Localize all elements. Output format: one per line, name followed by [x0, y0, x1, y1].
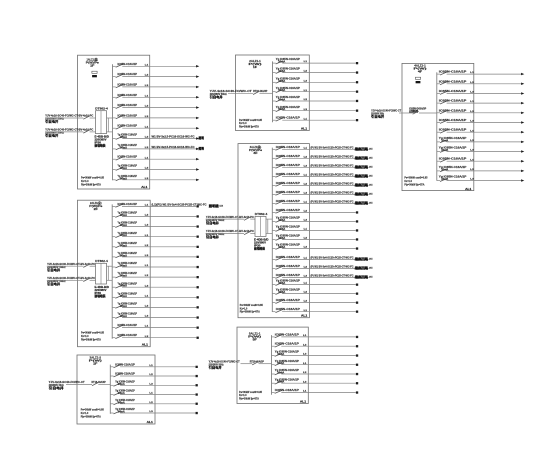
wire meter to bus 2ALZ1 — [107, 266, 113, 280]
svg-text:(P) W1 BV-3x4-SC25+PC25-CT-WC-: (P) W1 BV-3x4-SC25+PC25-CT-WC-FC — [311, 265, 354, 269]
svg-text:30mA: 30mA — [120, 244, 127, 247]
svg-text:Yg iC65N-C16A/1P: Yg iC65N-C16A/1P — [276, 216, 300, 220]
svg-text:30mA: 30mA — [120, 305, 127, 308]
breaker 1ALZ1 QF3 — [113, 82, 200, 88]
breaker 5ALZ1-1 QF1 — [272, 332, 359, 338]
svg-text:嵌墙暗装: 嵌墙暗装 — [254, 246, 265, 250]
svg-text:Pjs=30kW Ijs=57A: Pjs=30kW Ijs=57A — [81, 415, 101, 419]
svg-text:30mA: 30mA — [118, 392, 125, 395]
breaker 1ALZ1 QF6 — [113, 113, 200, 119]
svg-text:Yg iC65N-C16A/1P: Yg iC65N-C16A/1P — [118, 174, 138, 178]
svg-text:(L1)(P1) W1 BV-3x4-SC25-PC25-C: (L1)(P1) W1 BV-3x4-SC25-PC25-CT-WC-FC — [152, 202, 207, 206]
svg-text:Yg iC65N-C16A/1P: Yg iC65N-C16A/1P — [276, 225, 300, 229]
svg-text:30mA: 30mA — [277, 353, 284, 356]
svg-text:Pe=30kW cosΦ=0.85: Pe=30kW cosΦ=0.85 — [239, 390, 262, 394]
svg-text:30mA: 30mA — [278, 108, 285, 111]
breaker 2ALZ1 QF10 — [112, 291, 199, 298]
svg-text:Pe=30kW cosΦ=0.85: Pe=30kW cosΦ=0.85 — [404, 176, 427, 180]
svg-text:RT18-40A/3P: RT18-40A/3P — [253, 89, 267, 93]
breaker 4ALZ1-1 QF2 — [437, 79, 525, 85]
svg-text:照明: 照明 — [199, 135, 204, 140]
svg-text:30mA: 30mA — [118, 383, 125, 386]
breaker 3ALZ1 QF14 — [272, 264, 373, 270]
svg-text:30mA: 30mA — [120, 177, 127, 180]
breaker 4ALZ1-1 QF6 — [437, 118, 525, 124]
svg-text:引自电井: 引自电井 — [210, 95, 223, 99]
svg-text:1F: 1F — [253, 65, 258, 69]
feeder cable label 1ALZ1-WL1 — [45, 114, 93, 124]
feeder cable label 3ALZ1-WL1 — [206, 215, 254, 225]
svg-text:引自电井: 引自电井 — [371, 115, 384, 119]
svg-text:插座回路: 插座回路 — [355, 265, 369, 270]
svg-text:1XX: 1XX — [369, 277, 373, 279]
svg-text:1XX: 1XX — [369, 194, 373, 196]
breaker 3ALZ1-2 QF5 — [110, 398, 198, 405]
breaker 3ALZ1 QF19 — [272, 307, 358, 313]
svg-text:Yg iC65N-C16A/1P: Yg iC65N-C16A/1P — [439, 146, 467, 150]
svg-text:Yg iC65N-C16A/1P: Yg iC65N-C16A/1P — [118, 231, 138, 235]
svg-text:30mA: 30mA — [277, 372, 284, 375]
svg-text:iC65N-C16A/1P: iC65N-C16A/1P — [118, 62, 138, 66]
svg-text:插座回路: 插座回路 — [355, 182, 369, 187]
svg-text:30mA: 30mA — [278, 80, 285, 83]
svg-text:Yg iC65N-C16A/1P: Yg iC65N-C16A/1P — [118, 211, 138, 215]
svg-text:30mA: 30mA — [278, 70, 285, 73]
svg-text:1F: 1F — [93, 362, 98, 366]
svg-text:30mA: 30mA — [277, 362, 284, 365]
svg-text:Pjs=30kW Ijs=57A: Pjs=30kW Ijs=57A — [81, 337, 101, 341]
switch QS 2ALZ1-1 — [83, 264, 89, 267]
svg-text:1XX: 1XX — [369, 158, 373, 160]
breaker 4ALZ1-1 QF10 — [437, 157, 525, 163]
svg-text:iC65N-C16A/1P: iC65N-C16A/1P — [118, 72, 138, 76]
svg-text:30mA: 30mA — [120, 254, 127, 257]
svg-text:引自电井: 引自电井 — [47, 268, 60, 272]
svg-text:1F: 1F — [90, 64, 95, 68]
svg-text:iC65N-C16A/1P: iC65N-C16A/1P — [439, 89, 467, 93]
breaker 3ALZ1 QF5 — [272, 181, 373, 187]
breaker 3ALZ1 QF6 — [272, 190, 373, 196]
svg-text:引自电井: 引自电井 — [45, 134, 58, 138]
feeder cable label 2ALZ1-1-WL — [210, 89, 253, 99]
svg-text:30mA: 30mA — [120, 146, 127, 149]
panel 1ALZ1 enclosure box — [78, 55, 150, 189]
kWh meter PJ 1ALZ1 — [95, 108, 108, 134]
breaker 2ALZ1 QF9 — [112, 281, 199, 288]
breaker 2ALZ1 QF11 — [112, 302, 199, 309]
panel tag 3ALZ1-2 — [147, 420, 154, 424]
svg-text:AL1: AL1 — [142, 343, 149, 347]
svg-text:4F: 4F — [418, 70, 423, 74]
breaker 1ALZ1 QF12 — [113, 174, 200, 181]
svg-text:5F: 5F — [253, 337, 258, 341]
breaker 4ALZ1-1 QF3 — [437, 89, 525, 95]
svg-text:Pjs=30kW Ijs=57A: Pjs=30kW Ijs=57A — [404, 182, 424, 186]
svg-text:Yg iC65N-C16A/1P: Yg iC65N-C16A/1P — [118, 302, 138, 306]
breaker 1ALZ1 QF10 — [113, 155, 200, 161]
svg-text:30mA: 30mA — [278, 228, 285, 231]
breaker 3ALZ1-2 QF3 — [110, 379, 198, 386]
svg-text:30mA: 30mA — [441, 149, 448, 152]
breaker 2ALZ1-1 QF3 — [273, 76, 359, 83]
breaker 3ALZ1-2 QF6 — [110, 407, 198, 414]
svg-text:Yg iC65N-C16A/1P: Yg iC65N-C16A/1P — [118, 241, 138, 245]
breaker 1ALZ1 QF9 — [113, 143, 204, 151]
svg-text:插座回路: 插座回路 — [355, 256, 369, 261]
panel name plate 4ALZ1-1 — [414, 64, 427, 84]
switch QS 1ALZ1-2 — [83, 130, 89, 133]
svg-text:1XX: 1XX — [369, 259, 373, 261]
breaker 2ALZ1-1 QF5 — [273, 95, 359, 102]
panel name plate 3ALZ1-2 — [89, 356, 102, 366]
breaker 5ALZ1-1 QF2 — [272, 342, 359, 348]
svg-text:引自电井: 引自电井 — [209, 365, 222, 369]
svg-text:iC65N-C16A/1P: iC65N-C16A/1P — [276, 172, 300, 176]
wire incoming 3ALZ1-2 — [66, 384, 110, 386]
svg-text:(P) W1 BV-3x4-SC25+PC25-CT-WC-: (P) W1 BV-3x4-SC25+PC25-CT-WC-FC — [311, 145, 354, 149]
panel 3ALZ1 enclosure box — [238, 144, 309, 318]
panel 4ALZ1-1 enclosure box — [402, 63, 474, 190]
breaker 2ALZ1 QF4 — [112, 231, 199, 238]
svg-text:30mA: 30mA — [120, 214, 127, 217]
svg-text:照明插: 照明插 — [209, 203, 219, 208]
breaker 2ALZ1-1 QF1 — [273, 57, 359, 64]
breaker 2ALZ1-1 QF4 — [273, 86, 359, 93]
breaker 3ALZ1 QF3 — [272, 163, 373, 169]
switch QS 1ALZ1-1 — [83, 116, 89, 119]
svg-text:Yg iC65N-C16A/1P: Yg iC65N-C16A/1P — [439, 136, 467, 140]
breaker 1ALZ1 QF4 — [113, 93, 200, 99]
svg-text:30mA: 30mA — [278, 219, 285, 222]
svg-text:iC65N-C16A/1P: iC65N-C16A/1P — [439, 79, 467, 83]
svg-text:Pe=30kW cosΦ=0.85: Pe=30kW cosΦ=0.85 — [81, 408, 104, 412]
svg-text:iC65N-C16A/1P: iC65N-C16A/1P — [439, 108, 467, 112]
svg-text:W1 BV-3x2.5-PC16-SC16-WC-FC: W1 BV-3x2.5-PC16-SC16-WC-FC — [152, 135, 195, 139]
svg-text:Pe=30kW cosΦ=0.85: Pe=30kW cosΦ=0.85 — [239, 118, 262, 122]
svg-text:AL1: AL1 — [147, 420, 154, 424]
wire incoming 2ALZ1 line1 — [47, 265, 96, 267]
breaker 5ALZ1-1 QF3 — [272, 350, 359, 357]
svg-text:iC65N-C16A/1P: iC65N-C16A/1P — [118, 155, 138, 159]
svg-text:iC65N-C16A/1P: iC65N-C16A/1P — [276, 255, 300, 259]
breaker 4ALZ1-1 QF1 — [437, 70, 525, 76]
main switch 2ALZ1-1 RT-40A/3P — [253, 89, 267, 95]
svg-text:DT862-4: DT862-4 — [255, 213, 268, 216]
wire incoming 4ALZ1-1 — [399, 112, 437, 114]
main switch 5ALZ1-1 RT-40A/3P — [250, 359, 264, 365]
svg-text:Yg iC65N-C16A/1P: Yg iC65N-C16A/1P — [276, 279, 300, 283]
svg-text:iC65N-C16A/1P: iC65N-C16A/1P — [275, 332, 299, 336]
svg-text:Kx=1.0: Kx=1.0 — [240, 306, 248, 310]
svg-text:Yg iC65N-C16A/1P: Yg iC65N-C16A/1P — [275, 350, 299, 354]
svg-text:iC65N-C16A/1P: iC65N-C16A/1P — [276, 154, 300, 158]
svg-text:Pjs=30kW Ijs=57A: Pjs=30kW Ijs=57A — [240, 310, 260, 314]
load summary text 3ALZ1 — [240, 303, 263, 314]
svg-text:iC65N-C16A/1P: iC65N-C16A/1P — [276, 190, 300, 194]
enclosure label E-4DB 2ALZ1 — [95, 285, 110, 298]
breaker 4ALZ1-1 QF11 — [437, 165, 525, 172]
svg-text:Yg iC65N-C16A/1P: Yg iC65N-C16A/1P — [118, 143, 138, 147]
svg-text:照明: 照明 — [199, 146, 204, 151]
svg-text:Yg iC65N-C16A/1P: Yg iC65N-C16A/1P — [275, 377, 299, 381]
svg-text:(P) W1 BV-3x4-SC25+PC25-CT-WC-: (P) W1 BV-3x4-SC25+PC25-CT-WC-FC — [311, 274, 354, 278]
breaker 1ALZ1 QF7 — [113, 124, 200, 130]
main switch 3ALZ1-2 RT-40A/3P — [92, 380, 106, 386]
load summary text 3ALZ1-2 — [81, 408, 104, 419]
svg-text:Yg iC65N-C16A/1P: Yg iC65N-C16A/1P — [276, 105, 300, 109]
svg-text:30mA: 30mA — [278, 291, 285, 294]
enclosure label E-4DB 3ALZ1 — [254, 237, 269, 250]
busbar 3ALZ1 — [271, 148, 273, 312]
svg-text:1XX: 1XX — [369, 268, 373, 270]
svg-text:30mA: 30mA — [278, 99, 285, 102]
wire incoming 2ALZ1 line2 — [47, 279, 96, 281]
breaker 3ALZ1 QF10 — [272, 225, 358, 232]
breaker 2ALZ1 QF8 — [112, 271, 199, 278]
svg-text:30mA: 30mA — [441, 178, 448, 181]
breaker 3ALZ1 QF16 — [272, 279, 358, 286]
wire incoming 5ALZ1-1 — [241, 363, 272, 365]
svg-text:(P) W1 BV-3x4-SC25+PC25-CT-WC-: (P) W1 BV-3x4-SC25+PC25-CT-WC-FC — [311, 163, 354, 167]
panel tag 5ALZ1-1 — [300, 400, 307, 404]
svg-text:(P) W1 BV-3x4-SC25+PC25-CT-WC-: (P) W1 BV-3x4-SC25+PC25-CT-WC-FC — [311, 172, 354, 176]
breaker 4ALZ1-1 QF5 — [437, 108, 525, 114]
kWh meter PJ 2ALZ1 — [95, 260, 108, 284]
svg-text:AL1: AL1 — [465, 187, 472, 191]
busbar 2ALZ1 — [111, 204, 113, 338]
svg-text:iC65N-C16A/1P: iC65N-C16A/1P — [276, 145, 300, 149]
wire incoming 2ALZ1-1 — [228, 92, 273, 94]
svg-text:3F: 3F — [253, 151, 258, 155]
svg-text:嵌墙暗装: 嵌墙暗装 — [95, 294, 106, 298]
svg-text:过毄器: 过毄器 — [409, 109, 419, 113]
svg-text:30mA: 30mA — [120, 136, 127, 139]
svg-text:iC65N-C16A/1P: iC65N-C16A/1P — [276, 298, 300, 302]
svg-text:Kx=1.0: Kx=1.0 — [81, 334, 89, 338]
svg-text:插座回路: 插座回路 — [355, 155, 369, 160]
breaker 3ALZ1 QF9 — [272, 216, 358, 223]
svg-text:iC65N-C16A/1P: iC65N-C16A/1P — [439, 70, 467, 74]
switch QS 2ALZ1-2 — [83, 278, 89, 281]
breaker 3ALZ1-2 QF2 — [110, 372, 198, 378]
svg-text:Kx=1.0: Kx=1.0 — [239, 121, 247, 125]
svg-text:Kx=1.0: Kx=1.0 — [239, 393, 247, 397]
wire incoming 3ALZ1 line1 — [206, 218, 255, 220]
busbar 5ALZ1-1 — [271, 335, 273, 395]
svg-text:Pjs=30kW Ijs=57A: Pjs=30kW Ijs=57A — [239, 125, 259, 129]
svg-text:Yg iC65N-C16A/1P: Yg iC65N-C16A/1P — [115, 389, 135, 393]
feeder cable label 3ALZ1-2-WL — [49, 380, 85, 390]
breaker 3ALZ1 QF2 — [272, 154, 373, 160]
svg-text:30mA: 30mA — [120, 275, 127, 278]
svg-text:Pjs=30kW Ijs=57A: Pjs=30kW Ijs=57A — [81, 182, 101, 186]
enclosure label E-4DB 1ALZ1 — [95, 135, 110, 148]
load summary text 2ALZ1-1 — [239, 118, 262, 129]
feeder cable label 5ALZ1-1-WL — [209, 359, 240, 369]
svg-text:iC65N-C16A/1P: iC65N-C16A/1P — [115, 372, 135, 376]
svg-text:iC65N-C16A/1P: iC65N-C16A/1P — [276, 199, 300, 203]
svg-text:AL1: AL1 — [300, 400, 307, 404]
svg-text:Kx=1.0: Kx=1.0 — [81, 179, 89, 183]
svg-text:1XX: 1XX — [219, 206, 223, 208]
svg-text:1XX: 1XX — [369, 176, 373, 178]
breaker 4ALZ1-1 QF9 — [437, 146, 525, 153]
svg-text:Pe=30kW cosΦ=0.85: Pe=30kW cosΦ=0.85 — [81, 331, 104, 335]
panel 3ALZ1-2 enclosure box — [77, 355, 155, 424]
svg-text:30mA: 30mA — [278, 282, 285, 285]
wire meter to bus 3ALZ1 — [266, 219, 272, 233]
load summary text 5ALZ1-1 — [239, 390, 262, 401]
svg-text:RT18-40A/3P: RT18-40A/3P — [92, 380, 106, 384]
svg-text:iC65N-C16A/1P: iC65N-C16A/1P — [276, 307, 300, 311]
svg-text:iC65N-C16A/1P: iC65N-C16A/1P — [439, 128, 467, 132]
breaker 2ALZ1-1 QF7 — [273, 116, 359, 122]
breaker 4ALZ1-1 QF4 — [437, 99, 525, 105]
svg-text:30mA: 30mA — [118, 401, 125, 404]
svg-text:AL1: AL1 — [141, 185, 148, 189]
svg-text:Yg iC65N-C16A/1P: Yg iC65N-C16A/1P — [276, 288, 300, 292]
kWh meter PJ 3ALZ1 — [255, 213, 268, 236]
svg-text:30mA: 30mA — [120, 295, 127, 298]
breaker 2ALZ1-1 QF6 — [273, 105, 359, 112]
svg-text:30mA: 30mA — [278, 89, 285, 92]
svg-text:iC65N-C16A/1P: iC65N-C16A/1P — [276, 116, 300, 120]
feeder cable label 1ALZ1-WL2 — [45, 128, 93, 138]
panel name plate 2ALZ1 — [89, 201, 103, 211]
svg-text:(P) W1 BV-3x4-SC25+PC25-CT-WC-: (P) W1 BV-3x4-SC25+PC25-CT-WC-FC — [311, 190, 354, 194]
svg-text:Yg iC65N-C16A/1P: Yg iC65N-C16A/1P — [276, 57, 300, 61]
wire meter to bus 1ALZ1 — [107, 118, 113, 132]
svg-text:W1 BV-3x2.5-PC16-SC16-WC-FC: W1 BV-3x2.5-PC16-SC16-WC-FC — [152, 145, 195, 149]
breaker 3ALZ1 QF17 — [272, 288, 358, 295]
svg-text:30mA: 30mA — [120, 285, 127, 288]
svg-text:iC65N-C16A/1P: iC65N-C16A/1P — [118, 202, 138, 206]
svg-text:1XX: 1XX — [369, 167, 373, 169]
svg-text:2F: 2F — [94, 207, 99, 211]
panel 2ALZ1-1 enclosure box — [236, 55, 310, 131]
breaker 2ALZ1 QF1 — [112, 202, 223, 208]
svg-text:iC65N-C16A/1P: iC65N-C16A/1P — [276, 163, 300, 167]
panel name plate 5ALZ1-1 — [248, 331, 261, 341]
panel tag 2ALZ1-1 — [301, 127, 308, 131]
svg-text:iC65N-C16A/1P: iC65N-C16A/1P — [118, 124, 138, 128]
svg-text:iC65N-C16A/1P: iC65N-C16A/1P — [118, 113, 138, 117]
breaker 3ALZ1 QF15 — [272, 273, 373, 279]
svg-text:DT862-4: DT862-4 — [95, 108, 108, 111]
breaker 5ALZ1-1 QF4 — [272, 359, 359, 366]
breaker 3ALZ1-2 QF1 — [110, 362, 198, 368]
svg-text:30mA: 30mA — [441, 168, 448, 171]
breaker 3ALZ1 QF12 — [272, 243, 358, 250]
busbar 3ALZ1-2 — [109, 365, 111, 414]
svg-text:iC65N-C16A/1P: iC65N-C16A/1P — [118, 93, 138, 97]
svg-text:Yg iC65N-C16A/1P: Yg iC65N-C16A/1P — [276, 95, 300, 99]
svg-text:(P) W1 BV-3x4-SC25+PC25-CT-WC-: (P) W1 BV-3x4-SC25+PC25-CT-WC-FC — [311, 255, 354, 259]
breaker 5ALZ1-1 QF6 — [272, 377, 359, 384]
svg-text:Yg iC65N-C16A/1P: Yg iC65N-C16A/1P — [275, 359, 299, 363]
breaker 1ALZ1 QF8 — [113, 133, 204, 141]
breaker 3ALZ1 QF18 — [272, 298, 358, 304]
svg-text:Yg iC65N-C16A/1P: Yg iC65N-C16A/1P — [276, 234, 300, 238]
svg-text:iC65N-C16A/1P: iC65N-C16A/1P — [276, 208, 300, 212]
svg-text:引自电井: 引自电井 — [45, 120, 58, 124]
breaker 2ALZ1 QF13 — [112, 323, 199, 329]
svg-text:iC65N-C16A/1P: iC65N-C16A/1P — [439, 157, 467, 161]
breaker 3ALZ1 QF1 — [272, 145, 373, 151]
svg-text:插座回路: 插座回路 — [355, 164, 369, 169]
svg-text:30mA: 30mA — [120, 265, 127, 268]
wire incoming 1ALZ1 line1 — [45, 117, 96, 119]
svg-text:(P) W1 BV-3x4-SC25+PC25-CT-WC-: (P) W1 BV-3x4-SC25+PC25-CT-WC-FC — [311, 181, 354, 185]
panel tag 1ALZ1 — [141, 185, 148, 189]
breaker 4ALZ1-1 QF7 — [437, 128, 525, 134]
svg-text:30mA: 30mA — [120, 234, 127, 237]
panel name plate 3ALZ1 — [249, 145, 263, 155]
svg-text:30mA: 30mA — [120, 224, 127, 227]
svg-text:Yg iC65N-C16A/1P: Yg iC65N-C16A/1P — [118, 281, 138, 285]
busbar 1ALZ1 — [112, 64, 114, 180]
panel name plate 2ALZ1-1 — [249, 59, 262, 69]
breaker 1ALZ1 QF5 — [113, 103, 200, 109]
svg-text:iC65N-C16A/1P: iC65N-C16A/1P — [439, 118, 467, 122]
breaker 2ALZ1 QF3 — [112, 221, 199, 228]
svg-text:1XX: 1XX — [369, 203, 373, 205]
load summary text 1ALZ1 — [81, 176, 104, 187]
svg-text:30mA: 30mA — [278, 246, 285, 249]
svg-text:Pe=30kW cosΦ=0.85: Pe=30kW cosΦ=0.85 — [81, 176, 104, 180]
svg-text:iC65N-C16A/1P: iC65N-C16A/1P — [118, 103, 138, 107]
feeder cable label 3ALZ1-WL2 — [206, 229, 254, 239]
svg-text:引自电井: 引自电井 — [47, 282, 60, 286]
breaker 4ALZ1-1 QF8 — [437, 136, 525, 143]
svg-text:Yg iC65N-C16A/1P: Yg iC65N-C16A/1P — [118, 291, 138, 295]
svg-text:iC65N-C16A/1P: iC65N-C16A/1P — [439, 99, 467, 103]
svg-text:Yg iC65N-C16A/1P: Yg iC65N-C16A/1P — [115, 379, 135, 383]
svg-text:Yg iC65N-C16A/1P: Yg iC65N-C16A/1P — [118, 221, 138, 225]
panel name plate 1ALZ1 — [86, 58, 100, 78]
panel 5ALZ1-1 enclosure box — [237, 327, 308, 403]
svg-text:插座回路: 插座回路 — [355, 146, 369, 151]
breaker 5ALZ1-1 QF7 — [272, 388, 359, 394]
svg-text:插座回路: 插座回路 — [355, 274, 369, 279]
switch QS 3ALZ1-2 — [244, 232, 250, 235]
svg-text:DT862-4: DT862-4 — [95, 260, 108, 263]
svg-text:1XX: 1XX — [369, 149, 373, 151]
svg-text:AL1: AL1 — [301, 127, 308, 131]
main switch 4ALZ1-1 RT-40A/3P — [409, 107, 426, 114]
svg-text:iC65N-C16A/1P: iC65N-C16A/1P — [276, 264, 300, 268]
busbar 2ALZ1-1 — [272, 61, 274, 122]
busbar 4ALZ1-1 — [436, 72, 438, 180]
breaker 3ALZ1 QF8 — [272, 208, 358, 214]
wire incoming 3ALZ1 line2 — [206, 233, 255, 235]
svg-text:iC65N-C16A/1P: iC65N-C16A/1P — [275, 388, 299, 392]
svg-text:30mA: 30mA — [278, 61, 285, 64]
svg-text:iC65N-C16A/1P: iC65N-C16A/1P — [118, 323, 138, 327]
svg-text:iC65N-C16A/1P: iC65N-C16A/1P — [118, 82, 138, 86]
load summary text 2ALZ1 — [81, 331, 104, 342]
svg-text:Yg iC65N-C16A/1P: Yg iC65N-C16A/1P — [118, 133, 138, 137]
panel tag 3ALZ1 — [301, 314, 308, 318]
breaker 1ALZ1 QF2 — [113, 72, 200, 78]
panel 2ALZ1 enclosure box — [78, 200, 151, 347]
svg-text:插座回路: 插座回路 — [355, 191, 369, 196]
svg-text:Pjs=30kW Ijs=57A: Pjs=30kW Ijs=57A — [239, 397, 259, 401]
svg-text:Yg iC65N-C16A/1P: Yg iC65N-C16A/1P — [118, 164, 138, 168]
svg-text:Yg iC65N-C16A/1P: Yg iC65N-C16A/1P — [276, 76, 300, 80]
feeder cable label 2ALZ1-WL1 — [47, 262, 95, 272]
svg-text:AL1: AL1 — [301, 314, 308, 318]
